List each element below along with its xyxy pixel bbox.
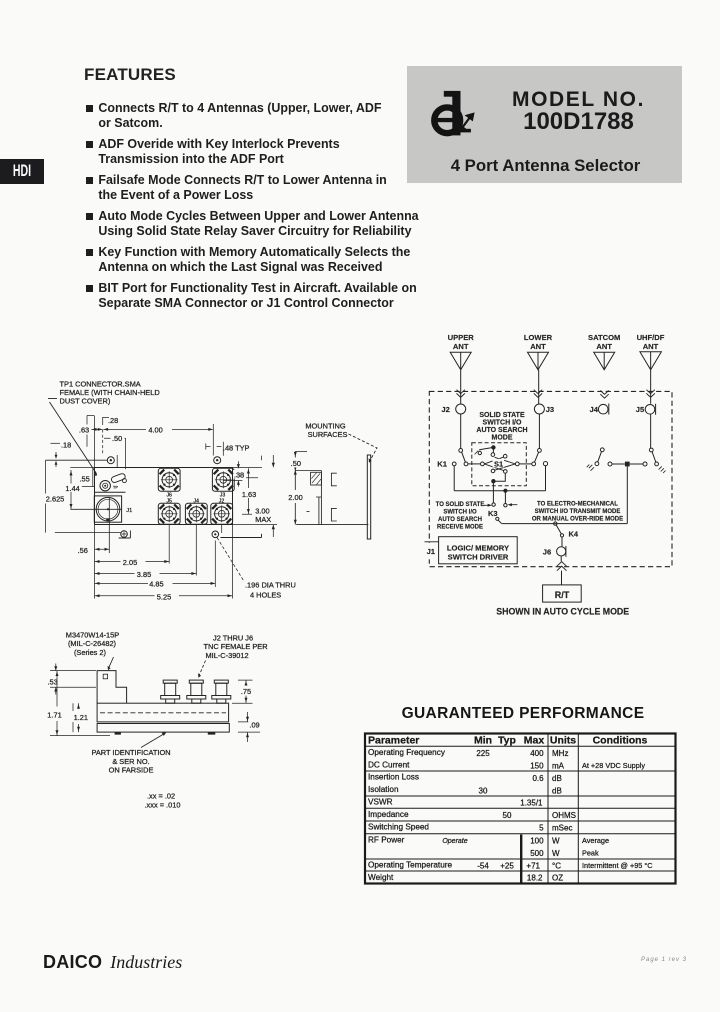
svg-text:J6: J6 bbox=[166, 492, 172, 498]
svg-text:UHF/DF: UHF/DF bbox=[637, 333, 665, 342]
svg-text:MAX: MAX bbox=[255, 515, 271, 524]
svg-text:5: 5 bbox=[539, 824, 544, 833]
svg-text:SURFACES: SURFACES bbox=[308, 430, 348, 439]
svg-text:4.85: 4.85 bbox=[149, 579, 163, 588]
svg-text:Weight: Weight bbox=[368, 873, 394, 882]
svg-text:mA: mA bbox=[552, 762, 565, 771]
svg-text:VSWR: VSWR bbox=[368, 797, 393, 806]
svg-text:1.35/1: 1.35/1 bbox=[520, 798, 543, 807]
svg-text:TO SOLID STATE: TO SOLID STATE bbox=[436, 502, 485, 508]
svg-text:Operate: Operate bbox=[442, 838, 467, 845]
svg-text:W: W bbox=[552, 849, 560, 858]
svg-text:AUTO SEARCH: AUTO SEARCH bbox=[438, 517, 482, 523]
svg-text:4.00: 4.00 bbox=[148, 425, 162, 434]
svg-text:0.6: 0.6 bbox=[532, 774, 544, 783]
svg-text:Typ: Typ bbox=[498, 735, 516, 747]
svg-text:4 HOLES: 4 HOLES bbox=[250, 590, 281, 599]
svg-text:ON FARSIDE: ON FARSIDE bbox=[109, 765, 154, 774]
svg-text:2.625: 2.625 bbox=[46, 494, 65, 503]
svg-text:1.21: 1.21 bbox=[74, 713, 88, 722]
svg-text:TP: TP bbox=[113, 486, 118, 490]
svg-text:Peak: Peak bbox=[582, 848, 599, 857]
svg-text:J6: J6 bbox=[543, 548, 551, 557]
svg-text:DUST COVER): DUST COVER) bbox=[60, 397, 111, 406]
svg-text:.18: .18 bbox=[61, 441, 71, 450]
svg-text:Isolation: Isolation bbox=[368, 785, 399, 794]
svg-text:dB: dB bbox=[552, 774, 562, 783]
svg-text:MODE: MODE bbox=[492, 434, 513, 441]
svg-text:DC Current: DC Current bbox=[368, 760, 410, 769]
svg-text:J4: J4 bbox=[590, 405, 599, 414]
svg-text:.75: .75 bbox=[241, 687, 251, 696]
svg-text:.55: .55 bbox=[80, 475, 90, 484]
svg-text:.xx = .02: .xx = .02 bbox=[147, 792, 175, 801]
svg-text:+71: +71 bbox=[526, 861, 540, 870]
svg-text:.50: .50 bbox=[291, 459, 301, 468]
svg-text:OZ: OZ bbox=[552, 874, 563, 883]
svg-text:J3: J3 bbox=[546, 405, 554, 414]
svg-text:(Series 2): (Series 2) bbox=[74, 648, 106, 657]
svg-text:50: 50 bbox=[503, 811, 512, 820]
svg-text:K1: K1 bbox=[437, 459, 447, 468]
svg-text:K3: K3 bbox=[488, 509, 498, 518]
svg-text:LOGIC/ MEMORY: LOGIC/ MEMORY bbox=[447, 544, 509, 553]
svg-text:Switching Speed: Switching Speed bbox=[368, 823, 429, 832]
svg-text:UPPER: UPPER bbox=[448, 333, 475, 342]
svg-text:1.63: 1.63 bbox=[242, 490, 256, 499]
svg-text:.09: .09 bbox=[249, 720, 259, 729]
svg-text:SWITCH I/O: SWITCH I/O bbox=[443, 509, 477, 515]
svg-text:3.85: 3.85 bbox=[137, 570, 151, 579]
svg-text:.63: .63 bbox=[79, 426, 89, 435]
svg-text:2.00: 2.00 bbox=[288, 493, 302, 502]
svg-text:SWITCH DRIVER: SWITCH DRIVER bbox=[448, 553, 509, 562]
svg-text:.38: .38 bbox=[234, 471, 244, 480]
svg-text:S1: S1 bbox=[494, 459, 503, 468]
svg-text:J1: J1 bbox=[427, 547, 436, 556]
svg-text:ANT: ANT bbox=[643, 342, 659, 351]
svg-text:100: 100 bbox=[530, 836, 544, 845]
svg-text:J1: J1 bbox=[126, 508, 132, 514]
svg-text:K4: K4 bbox=[569, 530, 579, 539]
svg-text:SATCOM: SATCOM bbox=[588, 333, 620, 342]
svg-text:ANT: ANT bbox=[530, 342, 546, 351]
svg-text:400: 400 bbox=[530, 749, 544, 758]
svg-text:Impedance: Impedance bbox=[368, 810, 409, 819]
svg-text:-54: -54 bbox=[477, 861, 489, 870]
svg-text:Units: Units bbox=[550, 735, 576, 747]
svg-text:.28: .28 bbox=[108, 416, 118, 425]
svg-text:mSec: mSec bbox=[552, 824, 572, 833]
svg-text:At +28 VDC Supply: At +28 VDC Supply bbox=[582, 761, 645, 770]
svg-text:.48 TYP: .48 TYP bbox=[223, 443, 250, 452]
svg-text:J4: J4 bbox=[194, 499, 200, 505]
svg-text:.56: .56 bbox=[78, 546, 88, 555]
svg-text:5.25: 5.25 bbox=[157, 592, 171, 601]
svg-text:TO ELECTRO-MECHANICAL: TO ELECTRO-MECHANICAL bbox=[537, 502, 618, 508]
svg-text:Min: Min bbox=[474, 735, 492, 747]
svg-text:1.44: 1.44 bbox=[65, 484, 79, 493]
svg-text:°C: °C bbox=[552, 861, 561, 870]
svg-text:OR MANUAL OVER-RIDE MODE: OR MANUAL OVER-RIDE MODE bbox=[532, 517, 623, 523]
svg-text:J2: J2 bbox=[219, 499, 225, 505]
svg-text:J5: J5 bbox=[166, 499, 172, 505]
svg-text:J3: J3 bbox=[220, 492, 226, 498]
svg-text:18.2: 18.2 bbox=[527, 874, 543, 883]
svg-text:500: 500 bbox=[530, 849, 544, 858]
svg-text:R/T: R/T bbox=[555, 590, 570, 600]
svg-text:dB: dB bbox=[552, 786, 562, 795]
svg-text:ANT: ANT bbox=[453, 342, 469, 351]
svg-text:RF Power: RF Power bbox=[368, 835, 405, 844]
svg-text:+25: +25 bbox=[500, 861, 514, 870]
svg-text:OHMS: OHMS bbox=[552, 811, 576, 820]
svg-text:225: 225 bbox=[476, 749, 490, 758]
svg-text:Parameter: Parameter bbox=[368, 735, 419, 747]
svg-text:Operating Temperature: Operating Temperature bbox=[368, 860, 452, 869]
svg-text:1.71: 1.71 bbox=[47, 711, 61, 720]
svg-text:J2: J2 bbox=[441, 405, 449, 414]
svg-text:SOLID STATE: SOLID STATE bbox=[479, 412, 525, 419]
svg-text:MIL-C-39012: MIL-C-39012 bbox=[206, 651, 249, 660]
svg-text:SWITCH I/O TRANSMIT MODE: SWITCH I/O TRANSMIT MODE bbox=[535, 509, 621, 515]
svg-text:.xxx = .010: .xxx = .010 bbox=[145, 801, 181, 810]
svg-text:Average: Average bbox=[582, 836, 609, 845]
svg-text:W: W bbox=[552, 836, 560, 845]
svg-text:Max: Max bbox=[524, 735, 545, 747]
svg-text:30: 30 bbox=[479, 786, 488, 795]
svg-text:Conditions: Conditions bbox=[593, 735, 648, 747]
svg-text:LOWER: LOWER bbox=[524, 333, 553, 342]
svg-text:Operating Frequency: Operating Frequency bbox=[368, 748, 446, 757]
svg-text:Intermittent @ +95 °C: Intermittent @ +95 °C bbox=[582, 861, 653, 870]
svg-text:Insertion Loss: Insertion Loss bbox=[368, 773, 419, 782]
svg-text:RECEIVE MODE: RECEIVE MODE bbox=[437, 524, 483, 530]
svg-text:ANT: ANT bbox=[596, 342, 612, 351]
svg-text:AUTO SEARCH: AUTO SEARCH bbox=[476, 427, 527, 434]
svg-text:SWITCH I/O: SWITCH I/O bbox=[483, 419, 522, 426]
svg-text:2.05: 2.05 bbox=[123, 558, 137, 567]
svg-text:J5: J5 bbox=[636, 405, 645, 414]
svg-text:.196 DIA THRU: .196 DIA THRU bbox=[245, 581, 296, 590]
svg-text:MHz: MHz bbox=[552, 749, 568, 758]
svg-text:.53: .53 bbox=[48, 677, 58, 686]
svg-text:150: 150 bbox=[530, 762, 544, 771]
svg-text:.50: .50 bbox=[112, 434, 122, 443]
svg-text:SHOWN IN AUTO CYCLE MODE: SHOWN IN AUTO CYCLE MODE bbox=[496, 606, 629, 616]
